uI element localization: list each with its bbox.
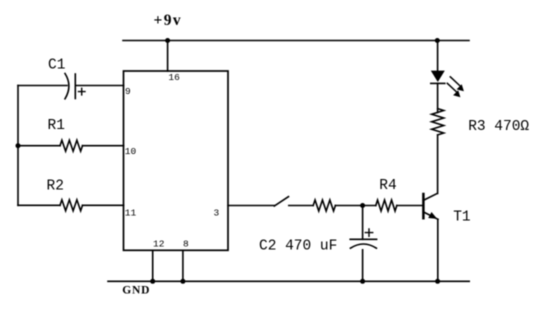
svg-text:16: 16 <box>168 72 180 83</box>
C1 curved plate <box>65 74 69 99</box>
T1 collector diagonal <box>423 193 437 200</box>
svg-text:R3 470Ω: R3 470Ω <box>468 119 529 135</box>
wire: C2 to ground <box>362 250 364 281</box>
resistor R2 <box>18 178 124 211</box>
svg-text:C1: C1 <box>48 58 65 74</box>
svg-text:3: 3 <box>214 208 220 219</box>
svg-text:R2: R2 <box>47 178 64 194</box>
switch S1 lever <box>274 197 288 206</box>
+9v power rail <box>123 40 469 42</box>
resistor R4 <box>376 200 397 211</box>
wire: bus to R1 <box>18 145 60 147</box>
wire: bus to R2 <box>18 204 60 206</box>
svg-text:8: 8 <box>183 238 189 249</box>
wire: rail down to LED <box>437 41 439 71</box>
capacitor C2 <box>259 206 377 282</box>
svg-text:+9v: +9v <box>154 12 183 29</box>
R1 zigzag <box>60 140 83 151</box>
wire: pin 12 to ground <box>152 250 154 281</box>
svg-text:9: 9 <box>125 86 131 97</box>
T1 emitter arrowhead <box>428 212 437 219</box>
LED triangle <box>431 71 445 82</box>
wire: C1 to pin 9 <box>75 85 123 87</box>
transistor T1 <box>423 193 470 225</box>
wire: emitter to ground <box>437 219 439 281</box>
wire: left to C1 <box>18 85 67 87</box>
LED arrow 1 <box>450 77 459 86</box>
svg-text:R1: R1 <box>48 118 65 134</box>
wire: junction down to C2 <box>362 206 364 240</box>
resistor (series, unlabeled) <box>313 200 335 211</box>
wire: R1 to pin 10 <box>83 145 124 147</box>
node: R4/C2 junction <box>360 203 365 208</box>
wire: resistor to C2 junction <box>335 205 376 207</box>
node: left bus / R1 junction <box>16 143 21 148</box>
svg-text:T1: T1 <box>453 209 470 225</box>
svg-text:R4: R4 <box>379 178 396 194</box>
node: pin8/ground <box>180 279 185 284</box>
wire: switch to series resistor <box>289 205 313 207</box>
wire: R4 to transistor base <box>397 205 423 207</box>
C1 straight plate <box>74 74 76 99</box>
svg-text:11: 11 <box>125 208 137 219</box>
T1 emitter diagonal <box>423 212 438 219</box>
wire: pin 3 out <box>228 205 274 207</box>
capacitor C1 <box>18 58 124 99</box>
wire: R2 to pin 11 <box>83 204 124 206</box>
wire: R3 to LED <box>437 83 439 112</box>
node: rail to LED branch junction <box>435 38 440 43</box>
svg-text:C2 470 uF: C2 470 uF <box>259 238 337 254</box>
wire: left vertical bus <box>17 86 19 206</box>
wire: rail to pin 16 <box>167 41 169 72</box>
C2 straight plate <box>350 238 376 240</box>
wire: pin 8 to ground <box>182 250 184 281</box>
resistor R3 (vertical) <box>432 109 444 135</box>
C2 plus sign <box>365 229 372 236</box>
node: emitter/ground <box>435 279 440 284</box>
R2 zigzag <box>60 200 83 211</box>
node: C2/ground <box>360 279 365 284</box>
LED cathode bar <box>431 82 445 84</box>
LED arrow 2 <box>447 83 456 91</box>
node: pin12/ground <box>150 279 155 284</box>
C2 curved plate <box>350 244 376 248</box>
C1 plus sign <box>79 88 86 95</box>
ground rail <box>108 280 469 282</box>
op-amp / IC U1 (555 timer box) <box>124 71 229 250</box>
LED D1 <box>431 71 464 98</box>
svg-text:10: 10 <box>125 146 137 157</box>
T1 base bar <box>422 194 425 218</box>
node: rail to pin16 junction <box>165 38 170 43</box>
svg-text:12: 12 <box>153 238 165 249</box>
svg-text:GND: GND <box>122 285 150 297</box>
resistor R1 <box>18 118 124 151</box>
wire: collector up to R3 <box>437 135 439 194</box>
